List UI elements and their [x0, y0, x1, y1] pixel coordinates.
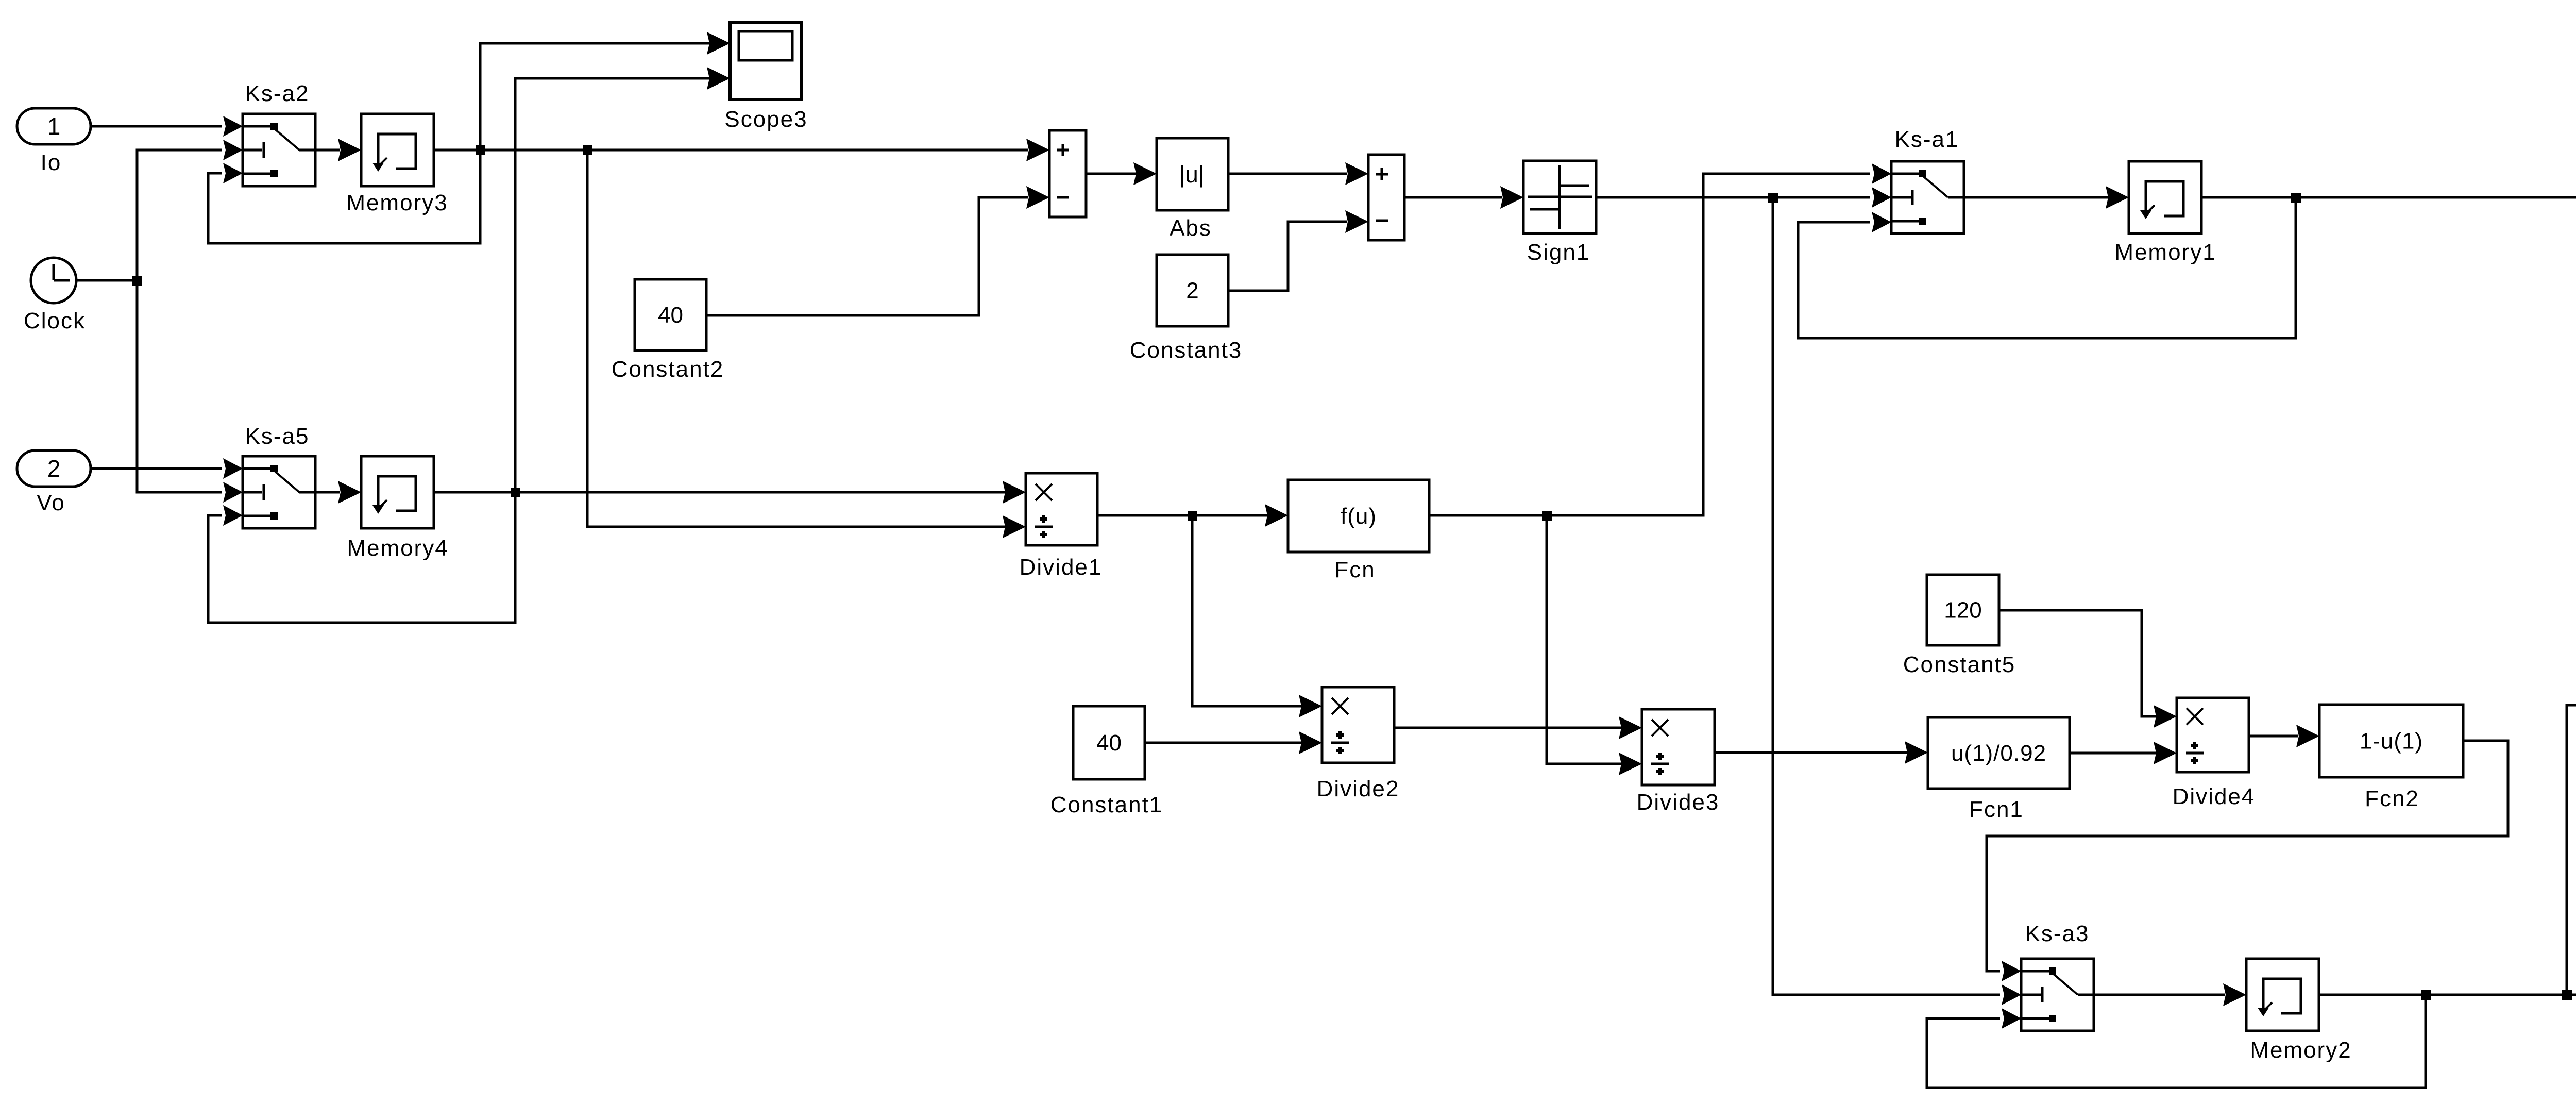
wire Ks-a2 out to Memory3: [315, 149, 340, 152]
wire Vo to Ks-a5 in1: [91, 467, 222, 470]
wire Abs out to Sum2 plus: [1228, 173, 1347, 175]
wire branch up to Scope3 in2: [515, 78, 709, 492]
fcn block Fcn1: [1928, 717, 2070, 789]
svg-text:Divide3: Divide3: [1637, 790, 1720, 815]
svg-text:40: 40: [1096, 730, 1122, 756]
svg-text:1-u(1): 1-u(1): [2360, 729, 2423, 754]
memory block Memory4: [361, 456, 434, 528]
wire Ks-a3 out to Memory2: [2094, 994, 2225, 996]
input port 1 Io: [17, 108, 91, 144]
svg-text:Divide2: Divide2: [1317, 776, 1400, 801]
fcn block Fcn: [1288, 480, 1429, 552]
svg-text:Constant3: Constant3: [1130, 338, 1243, 363]
wire Ks-a5 out to Memory4: [315, 491, 340, 494]
memory block Memory3: [361, 114, 434, 186]
wire Divide3 out to Fcn1: [1715, 751, 1907, 754]
wire Constant1 to Divide2 in2: [1145, 742, 1301, 744]
svg-text:Divide1: Divide1: [1020, 555, 1103, 580]
svg-text:Constant5: Constant5: [1903, 652, 2016, 677]
svg-text:Abs: Abs: [1170, 215, 1212, 241]
wire Ks-a1 out to Memory1: [1963, 196, 2108, 199]
svg-text:Io: Io: [41, 150, 62, 175]
svg-text:u(1)/0.92: u(1)/0.92: [1951, 741, 2046, 766]
wire Memory1 feedback to Ks-a1 in3: [1798, 197, 2296, 338]
wire Memory4 feedback to Ks-a5 in3: [208, 492, 515, 623]
junction Memory4 out: [511, 488, 520, 497]
svg-text:2: 2: [47, 455, 61, 482]
svg-text:Vo: Vo: [37, 490, 65, 515]
svg-text:Clock: Clock: [24, 308, 86, 333]
wire branch down to Divide1 in2: [587, 150, 1005, 527]
abs block Abs: [1157, 138, 1228, 210]
wire Memory4 out to Divide1 in1: [434, 491, 1005, 494]
switch block Ks-a5: [243, 456, 315, 528]
svg-text:Divide4: Divide4: [2173, 784, 2256, 809]
wire Constant2 to Sum1 minus: [706, 197, 1028, 315]
wire Fcn out up to Ks-a1 in1: [1429, 174, 1870, 515]
constant block Constant1: [1073, 706, 1145, 779]
switch block Ks-a2: [243, 114, 315, 186]
switch block Ks-a3: [2021, 959, 2094, 1031]
wire Constant5 to Divide4 in1: [1999, 610, 2156, 716]
wire Memory2 out to DUTY1: [2319, 994, 2576, 996]
svg-text:Memory4: Memory4: [347, 536, 448, 561]
divide block Divide1: [1026, 473, 1097, 545]
svg-text:Constant2: Constant2: [612, 357, 724, 382]
wire Io to Ks-a2 in1: [91, 125, 222, 128]
wire Memory1 out to DUTY2: [2201, 196, 2576, 199]
junction Memory1 out: [2291, 193, 2301, 203]
divide block Divide3: [1642, 709, 1715, 785]
wire Memory3 feedback to Ks-a2 in3: [208, 150, 480, 243]
svg-text:120: 120: [1944, 598, 1981, 623]
junction Fcn out: [1542, 511, 1552, 521]
constant block Constant2: [635, 279, 706, 350]
svg-text:Ks-a3: Ks-a3: [2025, 921, 2090, 946]
wire Sum2 out to Sign1: [1404, 196, 1502, 199]
svg-text:Fcn: Fcn: [1334, 557, 1375, 582]
wire Constant3 to Sum2 minus: [1228, 222, 1347, 291]
wire Clock output stub: [77, 279, 137, 282]
wire Divide1 out to Fcn: [1097, 514, 1267, 517]
junction DUTY1 line: [2562, 990, 2572, 1000]
svg-text:Memory2: Memory2: [2250, 1038, 2351, 1063]
svg-text:|u|: |u|: [1179, 161, 1204, 188]
fcn block Fcn2: [2319, 705, 2463, 777]
wire Sum1 out to Abs: [1086, 173, 1136, 175]
memory block Memory2: [2246, 959, 2319, 1031]
wire Memory3 out to Sum1 plus: [434, 149, 1028, 152]
switch block Ks-a1: [1891, 161, 1964, 233]
svg-text:Ks-a1: Ks-a1: [1895, 127, 1959, 152]
wire Sign1 branch down to Ks-a3 in2: [1773, 197, 2000, 995]
svg-text:2: 2: [1186, 278, 1198, 304]
clock block: [31, 258, 76, 303]
wire Fcn1 out to Divide4 in2: [2070, 752, 2156, 755]
svg-text:f(u): f(u): [1341, 504, 1377, 529]
sign block Sign1: [1523, 161, 1596, 233]
junction Divide1 out: [1188, 511, 1197, 521]
svg-text:Fcn2: Fcn2: [2365, 786, 2419, 811]
constant block Constant5: [1927, 575, 1999, 645]
junction Sign1 out: [1768, 193, 1778, 203]
wire Fcn2 out loop to Ks-a3 in1: [1987, 741, 2508, 971]
wire Fcn branch down to Divide3 in2: [1547, 515, 1621, 764]
junction Memory3 out A: [476, 145, 485, 155]
wire DUTY1 branch up to Scope2 in1: [2567, 705, 2576, 995]
svg-text:40: 40: [658, 303, 683, 328]
svg-text:Sign1: Sign1: [1527, 240, 1590, 265]
junction Memory3 out B: [583, 145, 592, 155]
svg-text:Constant1: Constant1: [1050, 792, 1163, 817]
svg-text:Memory3: Memory3: [346, 190, 448, 215]
svg-text:Ks-a2: Ks-a2: [245, 81, 310, 106]
junction Memory2 out: [2421, 990, 2431, 1000]
svg-text:Memory1: Memory1: [2114, 240, 2216, 265]
divide block Divide4: [2177, 698, 2249, 772]
svg-text:Ks-a5: Ks-a5: [245, 424, 310, 449]
wire Divide2 out to Divide3 in1: [1394, 727, 1621, 729]
input port 2 Vo: [17, 450, 91, 487]
wire Clock vertical trunk to Ks-a2 in2 and Ks-a5 in2: [137, 150, 222, 492]
wire branch down to Divide2 in1: [1192, 515, 1301, 706]
wire Memory2 feedback to Ks-a3 in3: [1927, 995, 2426, 1088]
sum block Sum1: [1049, 130, 1086, 217]
scope block Scope3: [730, 22, 802, 99]
junction clock trunk: [132, 276, 142, 286]
sum block Sum2: [1368, 155, 1404, 240]
svg-text:Fcn1: Fcn1: [1969, 797, 2024, 822]
wire Divide4 out to Fcn2: [2249, 735, 2298, 738]
constant block Constant3: [1157, 255, 1228, 326]
memory block Memory1: [2129, 161, 2201, 233]
svg-text:Scope3: Scope3: [724, 107, 807, 132]
wire Sign1 out to Ks-a1 in2: [1596, 196, 1870, 199]
divide block Divide2: [1322, 687, 1394, 763]
svg-text:1: 1: [47, 113, 61, 140]
wire branch up to Scope3 in1: [480, 43, 709, 150]
